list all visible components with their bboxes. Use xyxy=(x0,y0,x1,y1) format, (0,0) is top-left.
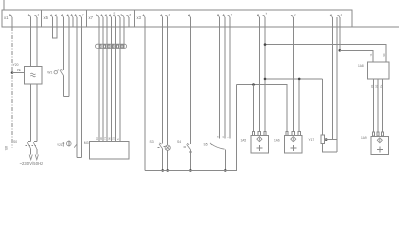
svg-text:71: 71 xyxy=(103,137,107,140)
svg-text:x7: x7 xyxy=(89,15,94,20)
svg-text:5: 5 xyxy=(116,138,120,140)
svg-text:3: 3 xyxy=(38,14,40,17)
valve Y21 circle xyxy=(67,141,72,146)
wire pin4 X5 down xyxy=(68,27,70,96)
switch S0 coupler dashed xyxy=(26,145,37,147)
svg-text:M3: M3 xyxy=(84,141,89,145)
band divider 3 xyxy=(133,10,135,27)
svg-text:W1: W1 xyxy=(47,71,52,75)
node line A mid xyxy=(298,78,301,81)
heater wire left xyxy=(76,27,78,158)
svg-text:85.: 85. xyxy=(4,146,8,151)
node A8 feed xyxy=(339,49,342,52)
svg-text:1A9: 1A9 xyxy=(361,136,367,140)
node S4 bus xyxy=(189,169,192,172)
wire line A riser down xyxy=(322,79,324,135)
svg-text:31: 31 xyxy=(112,137,116,140)
wire bus riser left xyxy=(144,27,146,170)
switch S5 xyxy=(210,143,212,145)
node S3 bus xyxy=(161,169,164,172)
node Y17 xyxy=(325,138,328,141)
filter U1 (interference suppressor) xyxy=(25,67,43,85)
svg-text:x5: x5 xyxy=(44,15,49,20)
dispenser A9 box xyxy=(371,137,389,155)
A5 valve symbol xyxy=(257,137,262,142)
wire stub group S5 2 xyxy=(224,27,226,138)
wire PE to filter xyxy=(12,72,25,74)
wire node B line to box2 xyxy=(236,85,287,132)
node S5 bus xyxy=(224,169,227,172)
svg-text:90: 90 xyxy=(382,53,386,56)
dispenser A5 wires xyxy=(258,27,260,131)
wire bus C6 xyxy=(119,27,121,142)
wire pin3 right down xyxy=(331,27,333,139)
wire line A xyxy=(265,78,323,80)
S3 to lamp dashed xyxy=(164,145,167,147)
pin 3 xyxy=(34,14,39,27)
wire pin4 down to filter xyxy=(30,27,32,66)
wire line C xyxy=(265,45,386,63)
svg-text:1A6: 1A6 xyxy=(274,139,280,143)
wire bus C4 xyxy=(110,27,112,142)
dispenser A6 wires xyxy=(292,27,294,131)
wire line B drop to A5 pin1 xyxy=(253,85,255,132)
wire bus C5 xyxy=(115,27,117,142)
module A8 box xyxy=(367,62,389,79)
A5 cross symbol xyxy=(256,145,262,151)
node line A left xyxy=(264,78,267,81)
svg-text:7: 7 xyxy=(82,14,84,17)
node lamp bus xyxy=(166,169,169,172)
svg-text:Y17: Y17 xyxy=(309,138,315,142)
band divider 2 xyxy=(85,10,87,27)
pin 7 cell X7 stub to stadium xyxy=(122,16,124,28)
svg-text:E: E xyxy=(114,13,116,16)
svg-text:1A8: 1A8 xyxy=(358,64,364,68)
wire filter to switch S0 left xyxy=(30,84,32,141)
A6 valve symbol xyxy=(291,137,296,142)
wire stub group S5 1 xyxy=(219,27,221,138)
pins cell X5 xyxy=(50,14,52,27)
wire filter to switch S0 right xyxy=(36,84,38,141)
node PE junction xyxy=(11,71,14,74)
switch S0 pole 2 xyxy=(33,142,37,149)
wire node to A8 pin 71 xyxy=(340,50,373,62)
heater wire right xyxy=(80,27,82,158)
A8 bottom wires xyxy=(373,79,375,132)
svg-text:3S: 3S xyxy=(370,85,374,88)
svg-text:C+: C+ xyxy=(379,84,383,88)
connector pins cell X1 xyxy=(9,13,343,49)
svg-text:7: 7 xyxy=(231,14,233,17)
wire pin3 X5 down xyxy=(63,27,65,70)
wire S0 pole2 down xyxy=(36,149,38,155)
bottom bus xyxy=(145,85,236,171)
band bottom line extension to right edge xyxy=(352,26,399,28)
heater loop bottom xyxy=(77,157,81,159)
svg-text:PE: PE xyxy=(17,68,21,72)
mains arrow 2 xyxy=(35,155,38,160)
valve Y21 symbol xyxy=(62,142,64,147)
wire pinP right down xyxy=(336,27,338,152)
svg-text:10: 10 xyxy=(95,137,99,140)
switch S4 xyxy=(189,27,191,144)
sensor W1 circle xyxy=(54,71,57,74)
wire Y17 right xyxy=(324,139,337,141)
terminals A9 xyxy=(372,132,374,136)
A6 cross symbol xyxy=(290,145,296,151)
pins cell X7 xyxy=(96,14,99,27)
connector stadium X7a xyxy=(96,44,127,48)
svg-text:b: b xyxy=(266,13,268,16)
wire W1 switch down to loop xyxy=(63,76,65,97)
wire bus C1 xyxy=(98,27,100,142)
dispenser A5 box xyxy=(251,136,268,153)
stadium contact ticks xyxy=(99,45,101,48)
frame stub top left xyxy=(3,0,5,10)
wire stub group S5 3 xyxy=(229,27,231,138)
terminal band X (outer rectangle) xyxy=(2,10,352,27)
svg-text:S0: S0 xyxy=(13,140,17,144)
lamp H1 xyxy=(167,27,169,145)
pin E (PE) xyxy=(9,13,12,27)
pins cell X3 xyxy=(143,14,145,27)
svg-text:71: 71 xyxy=(369,53,373,56)
wire pin3 down to filter xyxy=(36,27,38,66)
dispenser A6 box xyxy=(285,136,302,153)
svg-text:Y21: Y21 xyxy=(57,143,63,147)
wire bus C2 xyxy=(102,27,104,142)
svg-text:8: 8 xyxy=(130,14,132,17)
svg-text:x3: x3 xyxy=(137,15,142,20)
svg-text:S3: S3 xyxy=(150,140,154,144)
switch W1 contact xyxy=(60,70,64,76)
jumper link pins 1-2 of X5 xyxy=(53,27,58,38)
switch S3 xyxy=(162,27,164,143)
PE dash-dot line xyxy=(11,27,13,147)
wire bus C3 xyxy=(106,27,108,142)
svg-text:2: 2 xyxy=(294,14,296,17)
A9 cross symbol xyxy=(377,146,383,152)
svg-text:S4: S4 xyxy=(177,140,181,144)
node line B x box1 xyxy=(252,83,255,86)
svg-text:E: E xyxy=(9,13,11,17)
wire S0 pole1 down xyxy=(30,149,32,155)
svg-text:0S: 0S xyxy=(374,85,378,88)
band divider 1 xyxy=(40,10,42,27)
node line C xyxy=(264,43,267,46)
pin 4 xyxy=(28,14,31,27)
module M2 box xyxy=(90,142,130,159)
wire loop bottom W1 xyxy=(64,95,70,97)
wire Y17 loop xyxy=(323,144,337,152)
A9 valve symbol xyxy=(377,138,382,143)
terminals A6 xyxy=(286,132,288,136)
switch S0 pole 1 xyxy=(27,142,31,149)
svg-text:3: 3 xyxy=(169,14,171,17)
terminals A5 xyxy=(252,132,254,136)
svg-text:1A5: 1A5 xyxy=(241,139,247,143)
svg-text:S5: S5 xyxy=(204,143,208,147)
svg-text:~230V/50Hz: ~230V/50Hz xyxy=(20,161,44,166)
svg-text:Y20: Y20 xyxy=(13,63,19,67)
thermostat contact on heater wire xyxy=(74,144,77,148)
svg-text:4: 4 xyxy=(341,14,343,17)
svg-text:30: 30 xyxy=(99,137,103,140)
svg-text:90: 90 xyxy=(107,137,111,140)
wire pin4 right down to node xyxy=(339,27,341,50)
resistor Y17 xyxy=(321,135,325,143)
mains arrow 1 xyxy=(29,155,32,160)
pin 8 cell X7 xyxy=(126,14,131,27)
